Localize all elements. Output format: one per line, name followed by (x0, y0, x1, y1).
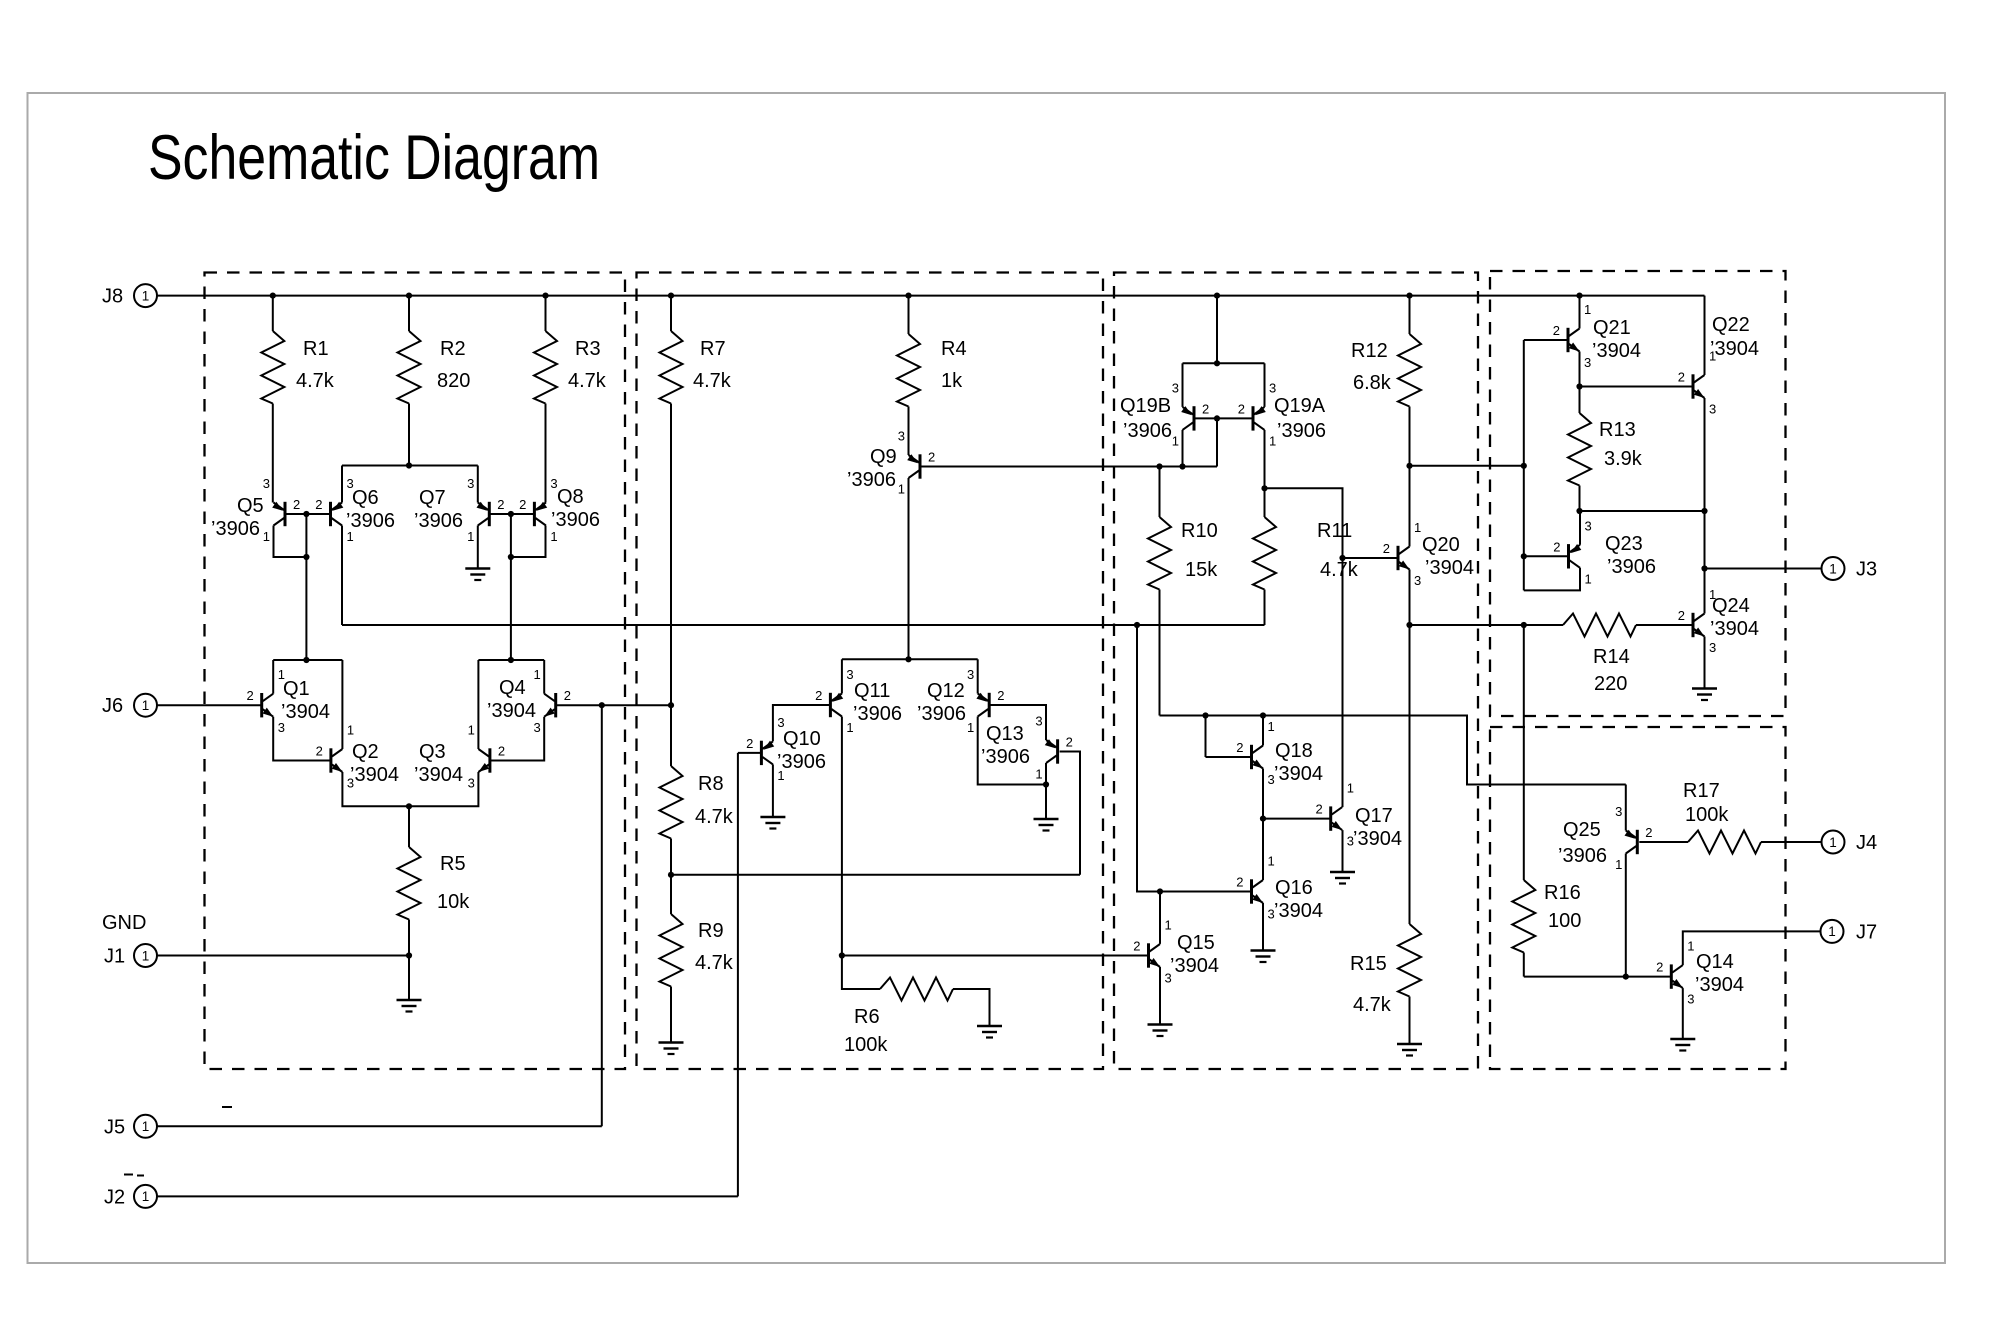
transistor Q10 (746, 715, 826, 783)
wire Q20 base (1343, 557, 1399, 559)
svg-text:Q10: Q10 (783, 728, 821, 750)
wire J2 lead (157, 1195, 738, 1197)
svg-text:3.9k: 3.9k (1604, 448, 1643, 470)
wire Q1-Q2 collector bus (273, 657, 342, 663)
svg-text:’3906: ’3906 (414, 510, 463, 532)
svg-text:R2: R2 (440, 338, 466, 360)
transistor Q9 (847, 429, 935, 497)
svg-text:3: 3 (1268, 907, 1275, 922)
transistor Q7 (414, 476, 505, 544)
svg-text:1: 1 (1269, 433, 1276, 448)
svg-text:Q13: Q13 (986, 723, 1024, 745)
svg-text:1: 1 (1268, 719, 1275, 734)
svg-text:Q11: Q11 (854, 680, 890, 702)
svg-text:2: 2 (1553, 539, 1560, 554)
svg-text:’3904: ’3904 (1274, 900, 1323, 922)
transistor Q14 (1656, 939, 1744, 1007)
wire Q21 base bus (1521, 340, 1568, 590)
ground Q17 (1330, 872, 1355, 884)
svg-text:J8: J8 (102, 286, 123, 308)
svg-text:1k: 1k (941, 370, 963, 392)
svg-text:2: 2 (1383, 541, 1390, 556)
svg-text:3: 3 (278, 720, 285, 735)
connector J3 (1822, 557, 1878, 581)
wire Q7-Q8 base node (489, 511, 534, 517)
svg-text:Q21: Q21 (1593, 317, 1631, 339)
svg-text:2: 2 (928, 450, 935, 465)
svg-text:Q5: Q5 (237, 495, 264, 517)
wire Q7 emitter (477, 466, 479, 503)
svg-text:Q8: Q8 (557, 486, 584, 508)
svg-text:1: 1 (142, 948, 150, 963)
svg-text:3: 3 (533, 720, 540, 735)
svg-text:’3906: ’3906 (1607, 556, 1656, 578)
svg-text:3: 3 (777, 715, 784, 730)
ground Q7 (465, 569, 490, 581)
transistor Q19B (1120, 380, 1209, 448)
resistor R11 (1253, 488, 1359, 625)
svg-text:R6: R6 (854, 1006, 880, 1028)
connector J8 (102, 284, 157, 308)
wire Q7-Q8 base bus down (510, 514, 512, 660)
wire Q22 collector (1704, 296, 1706, 375)
svg-text:’3906: ’3906 (551, 509, 600, 531)
wire Q16 collector (1262, 819, 1264, 880)
svg-text:3: 3 (1687, 992, 1694, 1007)
resistor R16 (1512, 880, 1581, 977)
svg-text:3: 3 (1585, 518, 1592, 533)
svg-text:’3904: ’3904 (414, 764, 463, 786)
svg-text:’3904: ’3904 (1592, 340, 1641, 362)
svg-text:R5: R5 (440, 853, 466, 875)
ground Q16 (1251, 951, 1276, 963)
wire Q24 emitter (1704, 637, 1706, 689)
wire J3 node (1701, 511, 1821, 572)
svg-text:R8: R8 (698, 773, 724, 795)
svg-text:2: 2 (246, 688, 253, 703)
svg-text:’3904: ’3904 (281, 701, 330, 723)
svg-text:’3904: ’3904 (1353, 828, 1402, 850)
transistor Q2 (316, 723, 399, 791)
wire Q11 emitter (841, 659, 843, 693)
svg-text:1: 1 (777, 768, 784, 783)
svg-text:3: 3 (347, 476, 354, 491)
svg-text:’3904: ’3904 (1425, 557, 1474, 579)
svg-text:Q16: Q16 (1275, 877, 1313, 899)
svg-text:’3904: ’3904 (350, 764, 399, 786)
svg-text:3: 3 (1035, 714, 1042, 729)
svg-text:2: 2 (293, 497, 300, 512)
transistor Q1 (246, 667, 329, 735)
svg-text:1: 1 (278, 667, 285, 682)
svg-text:1: 1 (1414, 520, 1421, 535)
svg-text:1: 1 (142, 1119, 150, 1134)
svg-text:3: 3 (1615, 804, 1622, 819)
svg-text:2: 2 (815, 688, 822, 703)
svg-text:2: 2 (1066, 735, 1073, 750)
svg-text:2: 2 (1202, 401, 1209, 416)
resistor R3 (534, 296, 607, 503)
svg-text:2: 2 (1236, 740, 1243, 755)
connector J2 (104, 1185, 157, 1209)
node GND label (102, 912, 146, 934)
svg-text:2: 2 (1656, 960, 1663, 975)
resistor R15 (1350, 625, 1421, 1044)
svg-text:R16: R16 (1544, 882, 1581, 904)
resistor R4 (897, 296, 967, 455)
svg-text:2: 2 (1553, 323, 1560, 338)
transistor Q8 (519, 476, 600, 544)
svg-text:4.7k: 4.7k (296, 370, 335, 392)
svg-text:’3904: ’3904 (1695, 974, 1744, 996)
transistor Q13 (981, 714, 1073, 782)
wire Q7 collector (477, 526, 479, 569)
resistor R17 (1639, 780, 1821, 854)
resistor R2 (398, 296, 471, 466)
transistor Q6 (315, 476, 395, 544)
svg-text:R11: R11 (1317, 520, 1352, 542)
wire Q18 base (1206, 716, 1252, 758)
svg-text:1: 1 (142, 698, 150, 713)
svg-text:Q14: Q14 (1696, 951, 1734, 973)
svg-text:2: 2 (1645, 825, 1652, 840)
svg-text:2: 2 (1133, 939, 1140, 954)
resistor R1 (261, 296, 335, 503)
wire Q25 collector (1623, 854, 1629, 980)
svg-text:’3904: ’3904 (1710, 338, 1759, 360)
connector J5 (104, 1115, 157, 1139)
wire Q8 collector loop (508, 526, 546, 561)
wire R13 bottom bar (1580, 510, 1705, 512)
svg-text:Q19B: Q19B (1120, 395, 1171, 417)
svg-text:Q23: Q23 (1605, 533, 1643, 555)
wire Q21 emitter node (1576, 352, 1582, 390)
svg-text:2: 2 (1678, 608, 1685, 623)
dashed box stage 5 (1490, 727, 1786, 1069)
ground Q10 (760, 817, 785, 829)
wire Q16 emitter (1262, 903, 1264, 951)
svg-text:R7: R7 (700, 338, 726, 360)
svg-text:100: 100 (1548, 910, 1581, 932)
wire R11 top to Q17 collector riser (1265, 488, 1346, 807)
svg-text:’3906: ’3906 (981, 746, 1030, 768)
wire Q16 base (1157, 888, 1252, 894)
wire long rail Q6-R11 (342, 622, 1265, 628)
svg-text:Q12: Q12 (927, 680, 965, 702)
svg-text:1: 1 (468, 723, 475, 738)
wire Q3 collector (477, 660, 479, 749)
wire Q5-Q6 base bus down (305, 514, 307, 660)
svg-text:’3906: ’3906 (853, 703, 902, 725)
wire J6 to Q1 base (157, 704, 262, 706)
svg-text:3: 3 (468, 776, 475, 791)
svg-text:3: 3 (1172, 380, 1179, 395)
svg-text:Q4: Q4 (499, 677, 526, 699)
wire Q12 emitter (977, 659, 979, 693)
wire Q4 collector (543, 660, 545, 694)
svg-text:4.7k: 4.7k (568, 370, 607, 392)
svg-text:1: 1 (533, 667, 540, 682)
wire Q3-Q4 collector bus (478, 657, 544, 663)
svg-text:4.7k: 4.7k (1320, 559, 1359, 581)
wire Q6-Q7 emitter rail (342, 462, 478, 468)
dashed box stage 4 (1490, 271, 1786, 716)
svg-text:Schematic Diagram: Schematic Diagram (148, 123, 600, 193)
transistor Q18 (1236, 719, 1323, 787)
svg-text:3: 3 (1584, 355, 1591, 370)
transistor Q23 (1553, 518, 1656, 586)
svg-text:’3904: ’3904 (1710, 618, 1759, 640)
wire Q25 emitter (1625, 785, 1627, 831)
wire J1 ground net (157, 952, 412, 1000)
svg-text:1: 1 (846, 720, 853, 735)
wire Q24 collector (1704, 569, 1706, 614)
wire Q19B collector (1179, 430, 1185, 470)
ground R9 (659, 1043, 684, 1055)
wire J5 to Q4 base node (157, 705, 602, 1126)
connector J6 (102, 694, 157, 718)
dashed box stage 1 (205, 273, 626, 1070)
wire Q20 collector (1409, 466, 1411, 547)
svg-text:1: 1 (898, 482, 905, 497)
svg-text:3: 3 (347, 776, 354, 791)
svg-text:Q15: Q15 (1177, 932, 1215, 954)
wire Q23 base (1524, 555, 1569, 557)
wire Q11 collector to Q15 base (839, 717, 1149, 959)
svg-text:2: 2 (1236, 875, 1243, 890)
svg-text:’3906: ’3906 (917, 703, 966, 725)
ground Q12 Q13 (1034, 819, 1059, 831)
svg-text:J7: J7 (1856, 921, 1877, 943)
wire Q18 collector (1262, 716, 1264, 746)
svg-text:J4: J4 (1856, 832, 1877, 854)
svg-text:1: 1 (347, 529, 354, 544)
stray mark above J5 (222, 1106, 232, 1108)
wire Q19A collector (1261, 430, 1267, 492)
resistor R8 (660, 705, 734, 875)
svg-text:3: 3 (1414, 573, 1421, 588)
wire Q1 collector (272, 660, 274, 694)
svg-text:2: 2 (497, 497, 504, 512)
svg-text:2: 2 (519, 497, 526, 512)
svg-text:1: 1 (142, 1189, 150, 1204)
wire Q20 emitter (1406, 570, 1412, 629)
svg-text:220: 220 (1594, 673, 1627, 695)
wire Q13 collector (1043, 763, 1049, 819)
svg-text:R4: R4 (941, 338, 967, 360)
svg-text:R3: R3 (575, 338, 601, 360)
svg-text:Q7: Q7 (419, 487, 446, 509)
svg-text:R17: R17 (1683, 780, 1720, 802)
svg-text:1: 1 (550, 529, 557, 544)
resistor R10 (1148, 463, 1218, 715)
wire Q10 collector (772, 764, 774, 817)
svg-text:1: 1 (1828, 924, 1836, 939)
svg-text:1: 1 (467, 529, 474, 544)
wire Q22 emitter (1701, 398, 1707, 514)
svg-text:’3906: ’3906 (847, 469, 896, 491)
svg-text:100k: 100k (844, 1034, 888, 1056)
svg-text:3: 3 (1268, 772, 1275, 787)
svg-text:1: 1 (1687, 939, 1694, 954)
svg-text:Q2: Q2 (352, 741, 379, 763)
svg-text:3: 3 (898, 429, 905, 444)
resistor R5 (398, 806, 471, 955)
transistor Q19A (1238, 380, 1326, 448)
svg-text:2: 2 (1238, 401, 1245, 416)
wire rail to Q15 collector (1137, 625, 1160, 944)
wire Q23 emitter (1579, 511, 1581, 545)
svg-text:1: 1 (1615, 857, 1622, 872)
svg-text:Q25: Q25 (1563, 819, 1601, 841)
dashed box stage 3 (1114, 273, 1478, 1070)
wire Q23 collector loop (1524, 568, 1580, 591)
resistor R6 (842, 956, 990, 1057)
svg-text:4.7k: 4.7k (693, 370, 732, 392)
svg-text:’3904: ’3904 (1274, 763, 1323, 785)
svg-text:1: 1 (1268, 854, 1275, 869)
transistor Q25 (1558, 804, 1653, 872)
svg-text:2: 2 (746, 736, 753, 751)
wire Q3 base to Q4 emitter (490, 717, 544, 761)
transistor Q15 (1133, 918, 1219, 986)
svg-text:1: 1 (347, 723, 354, 738)
svg-text:3: 3 (1709, 640, 1716, 655)
ground Q14 (1670, 1039, 1695, 1051)
transistor Q20 (1383, 520, 1474, 588)
svg-text:’3906: ’3906 (211, 518, 260, 540)
svg-text:R15: R15 (1350, 953, 1387, 975)
svg-text:R10: R10 (1181, 520, 1218, 542)
svg-text:J5: J5 (104, 1116, 125, 1138)
connector J4 (1822, 831, 1878, 855)
connector J1 (104, 944, 157, 968)
svg-text:’3904: ’3904 (1170, 955, 1219, 977)
transistor Q22 (1678, 314, 1759, 417)
wire Q2 emitter (342, 772, 409, 806)
transistor Q17 (1315, 781, 1401, 850)
svg-text:J1: J1 (104, 946, 125, 968)
ground R5 (397, 1000, 422, 1012)
wire R8-R9 node to Q13 base (668, 872, 1080, 878)
transistor Q12 (917, 667, 1004, 735)
stray marks above J2 (124, 1175, 144, 1176)
ground R6 (977, 1026, 1002, 1038)
svg-text:6.8k: 6.8k (1353, 372, 1392, 394)
wire Q12 base to Q13 emitter (989, 705, 1046, 740)
svg-text:Q3: Q3 (419, 741, 446, 763)
wire Q21 emitter to Q22 base (1580, 386, 1694, 388)
wire Q3 emitter (406, 772, 479, 809)
svg-text:1: 1 (1172, 433, 1179, 448)
resistor R14 (1563, 614, 1693, 696)
svg-text:2: 2 (315, 497, 322, 512)
svg-text:1: 1 (1585, 571, 1592, 586)
wire Q13 base riser (1060, 752, 1080, 875)
connector J7 (1821, 920, 1878, 944)
wire Q5-Q6 base node (285, 511, 331, 517)
svg-text:Q24: Q24 (1712, 595, 1750, 617)
wire Q5 collector loop (274, 526, 310, 561)
wire Q10 base J2 riser (738, 753, 762, 1197)
wire Q11 base to Q10 emitter (773, 705, 831, 741)
wire Q11-Q12 emitter bar (842, 656, 978, 662)
svg-text:’3906: ’3906 (1558, 845, 1607, 867)
svg-text:GND: GND (102, 912, 146, 934)
wire Q17 base (1263, 818, 1331, 820)
svg-text:2: 2 (316, 744, 323, 759)
svg-text:1: 1 (1709, 587, 1716, 602)
svg-text:2: 2 (498, 744, 505, 759)
svg-text:R1: R1 (303, 338, 329, 360)
svg-text:’3906: ’3906 (1123, 420, 1172, 442)
svg-text:Q9: Q9 (870, 446, 897, 468)
wire R16 riser (1523, 625, 1525, 880)
transistor Q3 (414, 723, 505, 791)
wire Q21 collector (1579, 296, 1581, 329)
transistor Q5 (211, 476, 300, 544)
title (148, 123, 600, 193)
svg-text:3: 3 (1269, 380, 1276, 395)
svg-text:Q19A: Q19A (1274, 395, 1326, 417)
transistor Q24 (1678, 587, 1759, 655)
svg-text:2: 2 (997, 688, 1004, 703)
svg-text:J2: J2 (104, 1186, 125, 1208)
wire Q19 base node riser (1214, 415, 1220, 466)
svg-text:R13: R13 (1599, 419, 1636, 441)
svg-text:3: 3 (1709, 402, 1716, 417)
wire J8 bus (157, 293, 1705, 299)
svg-text:3: 3 (1347, 834, 1354, 849)
svg-text:15k: 15k (1185, 559, 1218, 581)
resistor R7 (660, 296, 732, 706)
wire Q6 emitter (341, 466, 343, 503)
wire Q6 collector to rail (341, 526, 343, 626)
wire R10 bottom to Q25 emitter jog (1160, 712, 1626, 784)
wire emitter rail to box4 (1410, 622, 1564, 628)
svg-text:2: 2 (1678, 370, 1685, 385)
svg-text:1: 1 (967, 720, 974, 735)
dashed box stage 2 (637, 273, 1104, 1070)
svg-text:1: 1 (1035, 767, 1042, 782)
wire Q14 collector to J7 (1683, 931, 1820, 965)
ground Q15 (1148, 1025, 1173, 1037)
svg-text:1: 1 (1829, 561, 1837, 576)
wire Q17 emitter (1342, 830, 1344, 872)
wire Q19 emitter bar (1183, 296, 1265, 407)
wire Q9 base to Q19 bases (920, 466, 1217, 468)
svg-text:4.7k: 4.7k (695, 952, 734, 974)
resistor R12 (1351, 296, 1421, 466)
svg-text:4.7k: 4.7k (1353, 994, 1392, 1016)
svg-text:Q17: Q17 (1355, 805, 1393, 827)
svg-text:10k: 10k (437, 891, 470, 913)
wire Q9 collector (908, 478, 910, 659)
wire Q18 emitter node (1260, 769, 1266, 822)
wire R12 bottom node (1406, 463, 1523, 547)
resistor R13 (1568, 387, 1643, 515)
transistor Q21 (1553, 302, 1641, 370)
svg-text:3: 3 (1165, 971, 1172, 986)
svg-text:R14: R14 (1593, 646, 1630, 668)
svg-text:Q18: Q18 (1275, 740, 1313, 762)
svg-text:3: 3 (967, 667, 974, 682)
transistor Q4 (487, 667, 571, 735)
svg-text:2: 2 (1315, 802, 1322, 817)
svg-text:1: 1 (1347, 781, 1354, 796)
transistor Q16 (1236, 854, 1323, 923)
svg-text:820: 820 (437, 370, 470, 392)
